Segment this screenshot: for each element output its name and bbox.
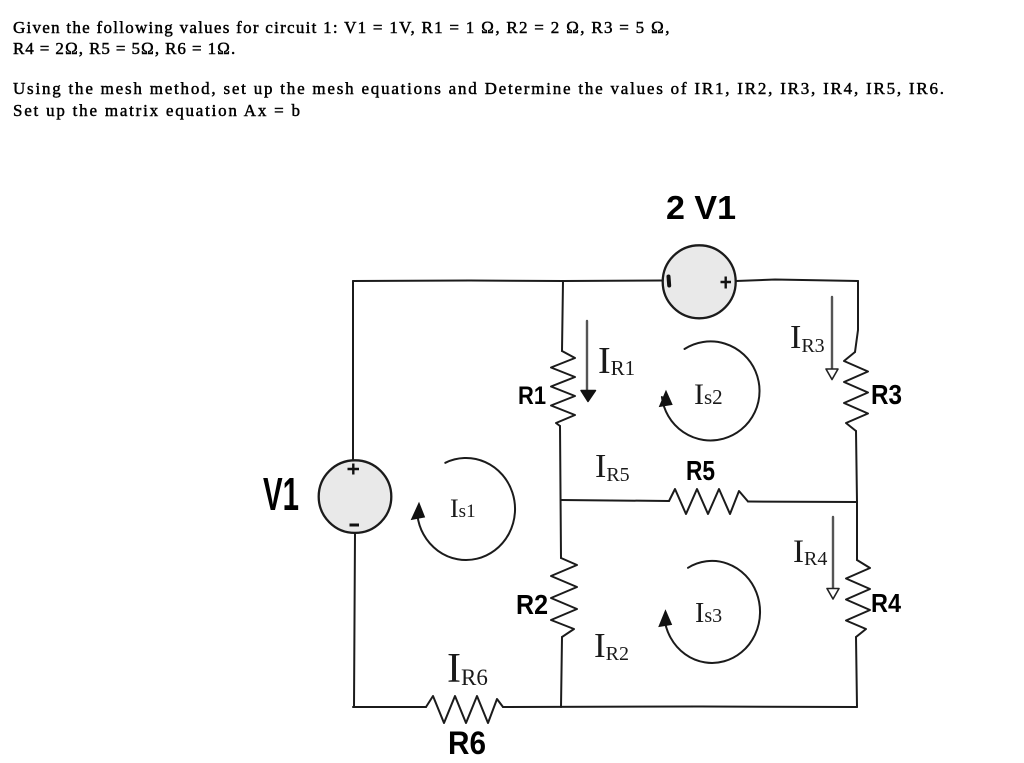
resistor R2 — [551, 558, 577, 637]
label R1 — [518, 382, 546, 410]
current arrow IR4 line — [832, 517, 834, 588]
wire R1 branch top — [562, 281, 563, 351]
label IR6 — [447, 646, 488, 692]
mesh loop Is1 arc — [417, 458, 515, 560]
wire R2 branch bottom — [561, 637, 562, 707]
wire R5 right segment — [748, 501, 857, 504]
wire bottom-left segment — [353, 706, 426, 708]
wire right vertical lower — [856, 637, 857, 707]
wire right vertical middle — [856, 431, 857, 560]
wire bottom-right segment — [503, 706, 857, 709]
wire middle vertical (R1 to R2 through R5 node) — [560, 426, 561, 558]
wire right vertical upper — [855, 281, 858, 352]
label R4 — [871, 588, 901, 618]
label R5 — [686, 455, 715, 486]
svg-text:R1: R1 — [518, 382, 546, 410]
dependent source 2V1 circle — [663, 245, 736, 318]
svg-text:IR4: IR4 — [793, 534, 827, 570]
2V1 minus sign — [667, 277, 672, 286]
current arrow IR3 head — [826, 369, 838, 380]
svg-text:IR6: IR6 — [447, 646, 488, 692]
current arrow IR1 line — [586, 321, 588, 392]
resistor R6 — [426, 696, 503, 723]
label IR4 — [793, 534, 827, 570]
current arrow IR1 head — [581, 391, 596, 402]
wire top-left segment — [353, 280, 663, 283]
label Is1 — [450, 494, 476, 523]
svg-text:IR5: IR5 — [595, 448, 630, 486]
svg-text:Is2: Is2 — [694, 378, 723, 411]
wire top-right segment — [736, 280, 858, 282]
mesh loop Is1 arrowhead — [412, 503, 425, 520]
resistor R3 — [844, 352, 868, 431]
svg-text:2 V1: 2 V1 — [666, 189, 736, 226]
V1 plus sign — [348, 464, 360, 475]
svg-text:Is1: Is1 — [450, 494, 476, 523]
svg-text:IR3: IR3 — [790, 319, 825, 357]
resistor R1 — [551, 351, 575, 426]
mesh loop Is2 arc — [662, 341, 760, 440]
wire R5 left segment — [561, 500, 669, 501]
mesh loop Is2 arrowhead — [660, 391, 673, 407]
mesh loop Is3 arrowhead — [659, 611, 672, 627]
label IR5 — [595, 448, 630, 486]
label R3 — [871, 379, 902, 410]
svg-text:R2: R2 — [516, 589, 548, 620]
svg-text:IR2: IR2 — [594, 626, 629, 665]
current arrow IR4 head — [827, 589, 839, 600]
label 2V1 — [666, 189, 736, 226]
label R6 — [448, 725, 486, 761]
svg-text:R3: R3 — [871, 379, 902, 410]
wire left vertical upper — [352, 281, 354, 461]
current arrow IR3 line — [831, 297, 833, 369]
label R2 — [516, 589, 548, 620]
svg-text:R5: R5 — [686, 455, 715, 486]
voltage source V1 circle — [319, 460, 392, 533]
label Is3 — [695, 598, 722, 629]
svg-text:Is3: Is3 — [695, 598, 722, 629]
label IR2 — [594, 626, 629, 665]
wire left vertical lower — [354, 533, 355, 707]
label Is2 — [694, 378, 723, 411]
resistor R5 — [669, 489, 748, 514]
label V1 — [263, 468, 299, 520]
svg-text:R6: R6 — [448, 725, 486, 761]
label IR3 — [790, 319, 825, 357]
V1 minus sign — [350, 524, 360, 527]
resistor R4 — [846, 560, 870, 637]
svg-text:V1: V1 — [263, 468, 299, 520]
label IR1 — [598, 340, 635, 382]
mesh loop Is3 arc — [664, 561, 760, 663]
svg-text:R4: R4 — [871, 588, 901, 618]
2V1 plus sign — [721, 277, 732, 289]
svg-text:IR1: IR1 — [598, 340, 635, 382]
